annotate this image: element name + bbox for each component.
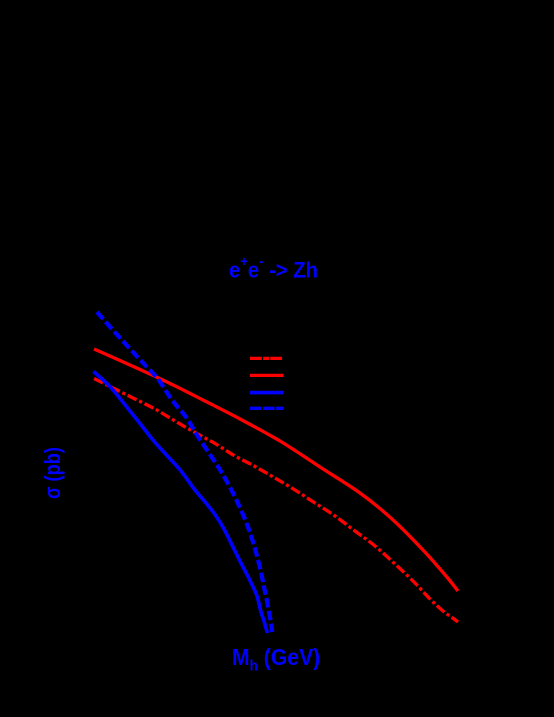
legend sample: blue dashed [250,407,284,410]
curve blue solid (sigma at lower sqrt(s)) [94,372,268,634]
x axis label Mh (GeV) [232,644,320,675]
legend sample: red solid [250,374,284,377]
curve blue dashed [97,312,272,632]
y axis label sigma (pb) [40,447,66,499]
curve red solid (sigma at higher sqrt(s)) [94,349,458,591]
title e+e- -> Zh [229,256,318,283]
legend sample: blue solid [250,391,284,395]
legend sample: red dash-dot [250,357,284,360]
curve red dash-dot [94,379,458,623]
